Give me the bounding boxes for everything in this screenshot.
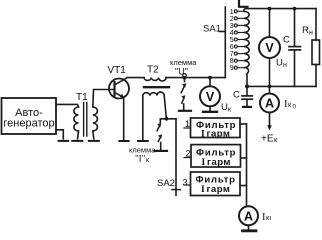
- svg-text:к: к: [274, 135, 278, 144]
- svg-text:5: 5: [230, 37, 234, 44]
- svg-text:2: 2: [186, 149, 191, 159]
- svg-text:C: C: [283, 35, 290, 46]
- svg-text:I: I: [201, 130, 205, 140]
- svg-text:I: I: [202, 158, 206, 168]
- svg-text:0: 0: [293, 105, 297, 111]
- svg-text:6: 6: [230, 44, 234, 51]
- svg-text:C: C: [233, 89, 240, 100]
- svg-text:н: н: [283, 62, 287, 69]
- svg-text:I: I: [201, 185, 205, 195]
- svg-text:4: 4: [230, 30, 234, 37]
- svg-text:"U": "U": [175, 67, 188, 77]
- svg-text:8: 8: [230, 58, 234, 65]
- svg-text:+E: +E: [261, 134, 274, 145]
- svg-text:SA2: SA2: [157, 178, 175, 189]
- svg-text:7: 7: [230, 51, 234, 58]
- svg-text:к: к: [228, 107, 232, 114]
- svg-text:1: 1: [230, 9, 234, 16]
- svg-text:9: 9: [230, 65, 234, 72]
- svg-text:к: к: [146, 157, 150, 164]
- svg-text:A: A: [244, 209, 253, 223]
- svg-text:генератор: генератор: [3, 117, 54, 129]
- svg-text:T1: T1: [76, 92, 88, 103]
- svg-text:SA1: SA1: [203, 24, 221, 35]
- svg-text:R: R: [302, 25, 309, 36]
- svg-text:гарм: гарм: [207, 157, 231, 168]
- svg-text:н: н: [309, 30, 313, 37]
- svg-text:VT1: VT1: [108, 65, 127, 76]
- svg-text:гарм: гарм: [207, 129, 231, 140]
- svg-text:U: U: [221, 102, 228, 113]
- svg-text:T2: T2: [147, 65, 159, 76]
- svg-text:1: 1: [185, 119, 190, 129]
- svg-text:гарм: гарм: [207, 184, 231, 195]
- svg-text:U: U: [276, 58, 283, 69]
- svg-text:кı: кı: [266, 213, 271, 222]
- svg-text:2: 2: [230, 16, 234, 23]
- svg-text:3: 3: [230, 23, 234, 30]
- svg-text:V: V: [265, 41, 274, 55]
- svg-text:V: V: [206, 90, 215, 104]
- svg-text:A: A: [265, 97, 274, 111]
- svg-text:к: к: [288, 100, 292, 109]
- svg-text:3: 3: [183, 177, 188, 187]
- svg-text:"I": "I": [135, 154, 146, 164]
